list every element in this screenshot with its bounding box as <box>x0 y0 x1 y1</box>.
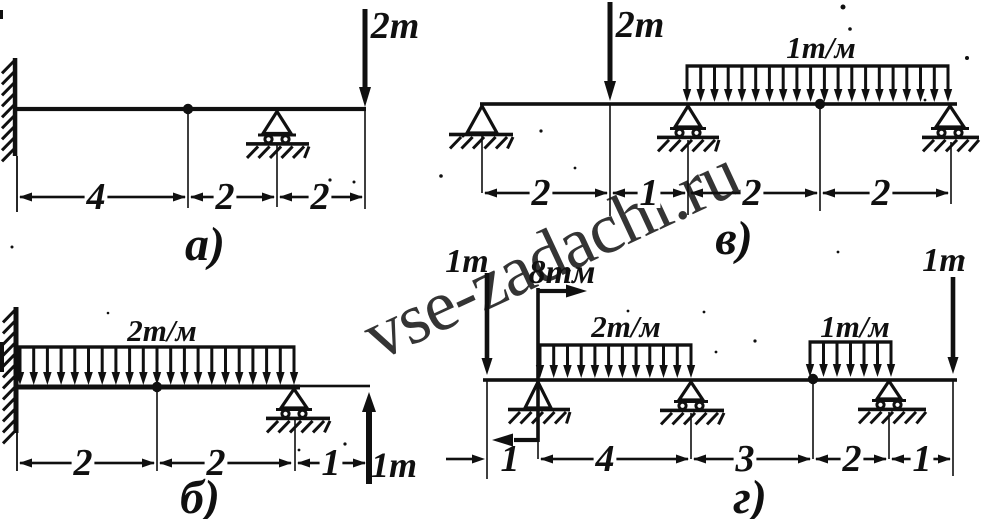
diagram b) hinge extension line <box>156 392 158 471</box>
diagram a) dimension line 2 (first) <box>190 176 275 218</box>
svg-text:2т: 2т <box>615 4 665 46</box>
diagram a) force extension line <box>364 109 366 209</box>
svg-text:1: 1 <box>322 442 341 484</box>
diagram g) hinge extension line <box>812 384 814 459</box>
svg-text:2т/м: 2т/м <box>126 313 196 348</box>
diagram g) hinge node <box>808 374 818 384</box>
svg-text:2: 2 <box>871 172 891 214</box>
diagram g) left force 1t arrow <box>485 273 490 361</box>
diagram a) roller support <box>246 112 309 208</box>
svg-text:2: 2 <box>215 176 235 218</box>
diagram v) middle roller support <box>657 106 719 215</box>
diagram b) beam right extension segment <box>294 385 370 388</box>
svg-text:б): б) <box>180 471 220 519</box>
diagram g) dimension line 1 (last) <box>891 438 951 480</box>
svg-text:2т: 2т <box>370 5 420 47</box>
diagram a) dimension line 2 (second) <box>279 176 363 218</box>
diagram b) dimension line 1 <box>297 442 366 484</box>
diagram g) dimension line 4 <box>540 438 689 480</box>
svg-text:1т: 1т <box>922 242 965 279</box>
svg-text:2: 2 <box>742 172 762 214</box>
diagram g) moment 8tm couple <box>492 285 587 447</box>
diagram g) first roller support <box>660 382 724 459</box>
diagram g) right force 1t arrow <box>951 277 956 360</box>
diagram v) dimension line 2 (first) <box>484 172 608 214</box>
diagram b) hinge node <box>152 382 162 392</box>
diagram v) force extension line <box>609 104 611 216</box>
diagram v) left pin support <box>449 106 513 193</box>
diagram a) beam <box>13 107 366 111</box>
diagram g) dimension outer left arrow <box>472 455 485 464</box>
diagram g) right force extension line <box>952 380 954 476</box>
svg-text:1: 1 <box>501 438 520 480</box>
svg-text:2: 2 <box>842 438 862 480</box>
diagram v) distributed load 1t/m <box>683 64 952 102</box>
diagram g) beam <box>483 378 957 382</box>
diagram b) beam <box>14 385 300 390</box>
diagram v) hinge node <box>815 99 825 109</box>
svg-text:а): а) <box>185 218 225 271</box>
svg-text:2: 2 <box>310 176 330 218</box>
svg-text:4: 4 <box>86 176 106 218</box>
svg-text:1т: 1т <box>445 243 488 280</box>
diagram g) second roller support <box>858 381 926 459</box>
diagram g) distributed load 2t/m <box>536 343 695 378</box>
diagram b) fixed wall support <box>3 307 19 471</box>
diagram a) hinge extension line <box>187 113 189 208</box>
svg-text:8тм: 8тм <box>529 254 596 291</box>
diagram v) hinge extension line <box>819 109 821 211</box>
diagram v) dimension line 2 (third) <box>822 172 949 214</box>
diagram b) dimension line 2 (first) <box>19 442 155 484</box>
svg-text:в): в) <box>715 212 752 265</box>
diagram v) force 2t arrow <box>608 2 613 84</box>
diagram b) dimension line 2 (second) <box>159 442 292 484</box>
diagram b) upward force 1t arrow <box>366 409 372 484</box>
svg-text:2: 2 <box>531 172 551 214</box>
diagram g) left force extension line <box>486 380 488 479</box>
svg-text:г): г) <box>733 471 767 519</box>
diagram v) dimension line 2 (second) <box>690 172 818 214</box>
svg-text:1: 1 <box>640 172 659 214</box>
svg-text:2т/м: 2т/м <box>590 309 660 344</box>
diagram a) hinge node <box>183 104 193 114</box>
svg-text:4: 4 <box>595 438 615 480</box>
diagram b) roller support <box>266 389 330 471</box>
diagram a) force 2t arrow <box>363 9 368 90</box>
diagram a) dimension line 4 <box>19 176 186 218</box>
svg-text:1т/м: 1т/м <box>786 30 855 65</box>
diagram v) dimension line 1 <box>612 172 686 214</box>
diagram v) beam <box>480 102 957 106</box>
diagram g) distributed load 1t/m <box>806 340 895 377</box>
svg-text:1т: 1т <box>371 445 417 485</box>
svg-text:2: 2 <box>73 442 93 484</box>
diagram g) dimension line 2 <box>815 438 887 480</box>
diagram g) dimension line 3 <box>693 438 811 480</box>
diagram a) fixed wall support <box>2 58 18 212</box>
svg-text:1т/м: 1т/м <box>820 309 889 344</box>
diagram v) right roller support <box>922 106 979 204</box>
diagram b) distributed load 2t/m <box>16 345 298 385</box>
svg-text:1: 1 <box>913 438 932 480</box>
diagram g) pin support <box>508 382 570 459</box>
